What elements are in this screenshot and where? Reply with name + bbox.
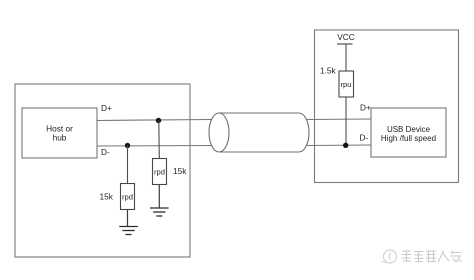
wire D+ node to Rpd2	[158, 121, 161, 159]
char 4	[438, 251, 449, 262]
resistor Rpd2 (D+ pull-down)	[153, 159, 167, 185]
node junction dot (Rpu joins D-)	[343, 143, 348, 148]
ground (right)	[150, 208, 169, 216]
resistor Rpd1 (D- pull-down)	[121, 184, 135, 210]
char 5	[450, 251, 462, 263]
svg-text:D+: D+	[360, 103, 371, 113]
VCC symbol	[337, 32, 355, 44]
cable (cylinder)	[209, 113, 309, 152]
wire D+ (cable to device)	[307, 118, 372, 121]
device enclosure box	[315, 30, 459, 183]
svg-text:D+: D+	[101, 103, 112, 113]
node junction dot on D-	[125, 143, 130, 148]
svg-text:rpu: rpu	[341, 80, 352, 89]
ground (left)	[119, 227, 138, 235]
wire D- node to Rpd1	[127, 146, 129, 184]
USB Device box	[371, 108, 446, 157]
node junction dot on D+	[156, 118, 161, 123]
wire Rpu to D- node	[345, 97, 347, 145]
host enclosure box	[15, 84, 190, 257]
watermark logo icon	[381, 250, 397, 263]
wire D- (cable to device)	[307, 144, 372, 147]
wire D+ (host to cable)	[97, 120, 212, 121]
svg-text:USB Device: USB Device	[387, 125, 431, 134]
wire Rpd1 to ground	[127, 210, 129, 227]
char 3	[426, 251, 436, 262]
svg-text:VCC: VCC	[337, 32, 355, 42]
svg-text:High /full speed: High /full speed	[381, 134, 436, 143]
svg-text:hub: hub	[53, 133, 67, 143]
svg-text:rpd: rpd	[154, 168, 165, 177]
svg-text:15k: 15k	[100, 192, 114, 202]
Host or hub box	[22, 108, 97, 158]
char 2	[414, 252, 424, 262]
svg-text:rpd: rpd	[122, 193, 133, 202]
wire D- (host to cable)	[97, 145, 213, 148]
wire Rpd2 to ground	[158, 185, 160, 209]
svg-text:D-: D-	[101, 147, 110, 157]
char 1	[402, 251, 412, 262]
svg-text:D-: D-	[360, 133, 369, 143]
svg-text:15k: 15k	[173, 166, 187, 176]
resistor Rpu (pull-up)	[339, 71, 354, 97]
svg-text:1.5k: 1.5k	[320, 66, 337, 76]
wire VCC to Rpu	[345, 44, 347, 71]
watermark text (faint CJK glyph marks)	[402, 251, 462, 263]
